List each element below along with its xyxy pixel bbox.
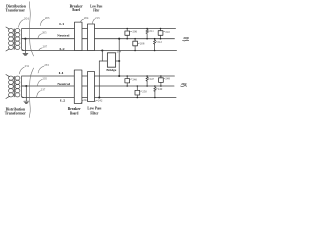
svg-text:205: 205 bbox=[42, 31, 47, 35]
wire Neutral (bottom) bbox=[22, 85, 174, 87]
leader arc 231 (long S-curve over bottom lines) bbox=[29, 68, 33, 118]
resistor 247 (bottom, L1 to neutral) bbox=[146, 76, 148, 86]
svg-text:249: 249 bbox=[158, 87, 163, 91]
low pass filter box (bottom) bbox=[88, 72, 95, 102]
wire L1 (bottom hot leg) bbox=[22, 75, 174, 77]
node: junction on top neutral bbox=[118, 38, 120, 40]
breaker board box (top) bbox=[75, 22, 83, 50]
svg-text:Filter: Filter bbox=[90, 111, 98, 115]
label 210 bbox=[164, 30, 165, 32]
svg-text:203: 203 bbox=[45, 16, 50, 20]
label 206 bbox=[130, 31, 132, 33]
label 248 bbox=[164, 77, 165, 79]
label 246 bbox=[130, 78, 132, 80]
wire L2 (bottom hot leg) bbox=[22, 97, 176, 99]
node: junction on bottom L1 bbox=[118, 75, 120, 77]
svg-text:208: 208 bbox=[140, 41, 145, 45]
svg-text:L1: L1 bbox=[59, 71, 65, 75]
distribution transformer T2 (bottom) bbox=[6, 75, 26, 99]
capacitor box 208 (top, neutral to L2) bbox=[133, 39, 138, 51]
capacitor box 206 (top, L1 to neutral) bbox=[125, 29, 130, 39]
resistor 211 (top, L1 to neutral) bbox=[146, 29, 148, 39]
label 211 bbox=[148, 30, 149, 32]
resistor 249 (bottom, neutral to L2) bbox=[154, 86, 156, 98]
svg-text:212: 212 bbox=[157, 40, 162, 44]
leader arc 201 (long S-curve over top lines) bbox=[29, 2, 33, 56]
capacitor box 250 (bottom, neutral to L2) bbox=[135, 86, 140, 98]
label 212 bbox=[156, 41, 157, 43]
node: bottom neutral center tap junction bbox=[25, 85, 27, 87]
svg-text:Transformer: Transformer bbox=[6, 8, 26, 13]
svg-text:Board: Board bbox=[72, 8, 80, 12]
capacitor box 210 (top, L1 to neutral) bbox=[158, 29, 163, 39]
label 250 bbox=[141, 90, 142, 92]
capacitor box 248 (bottom, L1 to neutral) bbox=[159, 76, 164, 86]
node: L2 tap to bridge bbox=[101, 49, 103, 51]
svg-text:Low Pass: Low Pass bbox=[87, 107, 102, 111]
svg-text:Bridge: Bridge bbox=[106, 68, 116, 72]
label 247 bbox=[148, 78, 149, 80]
svg-text:Filter: Filter bbox=[93, 9, 99, 13]
wire Neutral (top) bbox=[22, 38, 175, 40]
svg-text:L1: L1 bbox=[59, 22, 64, 26]
svg-text:L2: L2 bbox=[59, 47, 65, 51]
ground (bottom) bbox=[24, 101, 29, 103]
distribution transformer T1 (top) bbox=[6, 27, 26, 51]
svg-text:213: 213 bbox=[95, 16, 100, 20]
svg-text:233: 233 bbox=[44, 63, 49, 67]
wire L1 (top hot leg) bbox=[22, 28, 176, 30]
svg-text:Neutral: Neutral bbox=[57, 34, 69, 38]
label 208 bbox=[138, 42, 139, 44]
svg-text:202: 202 bbox=[181, 82, 187, 86]
capacitor box 246 (bottom, L1 to neutral) bbox=[125, 76, 130, 86]
wire: bridge left lead down to bottom L2 bbox=[98, 61, 100, 98]
svg-text:231: 231 bbox=[25, 64, 30, 68]
wire: top center tap to ground bbox=[24, 39, 26, 54]
svg-text:248: 248 bbox=[165, 77, 170, 81]
svg-text:242: 242 bbox=[98, 99, 103, 103]
ground (top) bbox=[23, 53, 28, 55]
svg-text:235: 235 bbox=[42, 76, 47, 80]
svg-text:L2: L2 bbox=[60, 98, 66, 102]
wire L2 (top hot leg) bbox=[22, 50, 177, 52]
svg-text:237: 237 bbox=[41, 88, 46, 92]
breaker board box (bottom) bbox=[74, 70, 82, 104]
node: bridge right lead junction bbox=[118, 60, 120, 62]
node: bridge wire joins bottom L2 bbox=[98, 96, 100, 98]
label 249 bbox=[156, 88, 157, 90]
svg-text:Neutral: Neutral bbox=[57, 82, 70, 86]
svg-text:Board: Board bbox=[70, 111, 79, 115]
svg-text:247: 247 bbox=[150, 77, 155, 81]
bridge box bbox=[107, 53, 115, 67]
svg-text:207: 207 bbox=[43, 45, 48, 49]
svg-text:211: 211 bbox=[149, 29, 154, 33]
wire: bridge right lead bbox=[116, 60, 120, 62]
svg-text:201: 201 bbox=[24, 16, 30, 20]
wire: bridge left lead bbox=[99, 60, 107, 62]
resistor 212 (top, neutral to L2) bbox=[153, 39, 155, 51]
svg-text:Transformer: Transformer bbox=[5, 111, 26, 116]
svg-text:206: 206 bbox=[133, 30, 138, 34]
svg-text:250: 250 bbox=[142, 89, 147, 93]
svg-text:204: 204 bbox=[84, 16, 89, 20]
wire: top neutral down to bottom L1 bbox=[118, 39, 120, 76]
low pass filter box (top) bbox=[88, 24, 95, 51]
node: top neutral center tap junction bbox=[24, 38, 26, 40]
svg-text:246: 246 bbox=[132, 78, 137, 82]
wire: bottom center tap to ground bbox=[25, 86, 27, 101]
svg-text:Breaker: Breaker bbox=[68, 107, 81, 111]
svg-text:210: 210 bbox=[165, 30, 170, 34]
svg-text:200: 200 bbox=[183, 36, 189, 40]
wire: L2 down to bridge left lead bbox=[101, 51, 103, 62]
